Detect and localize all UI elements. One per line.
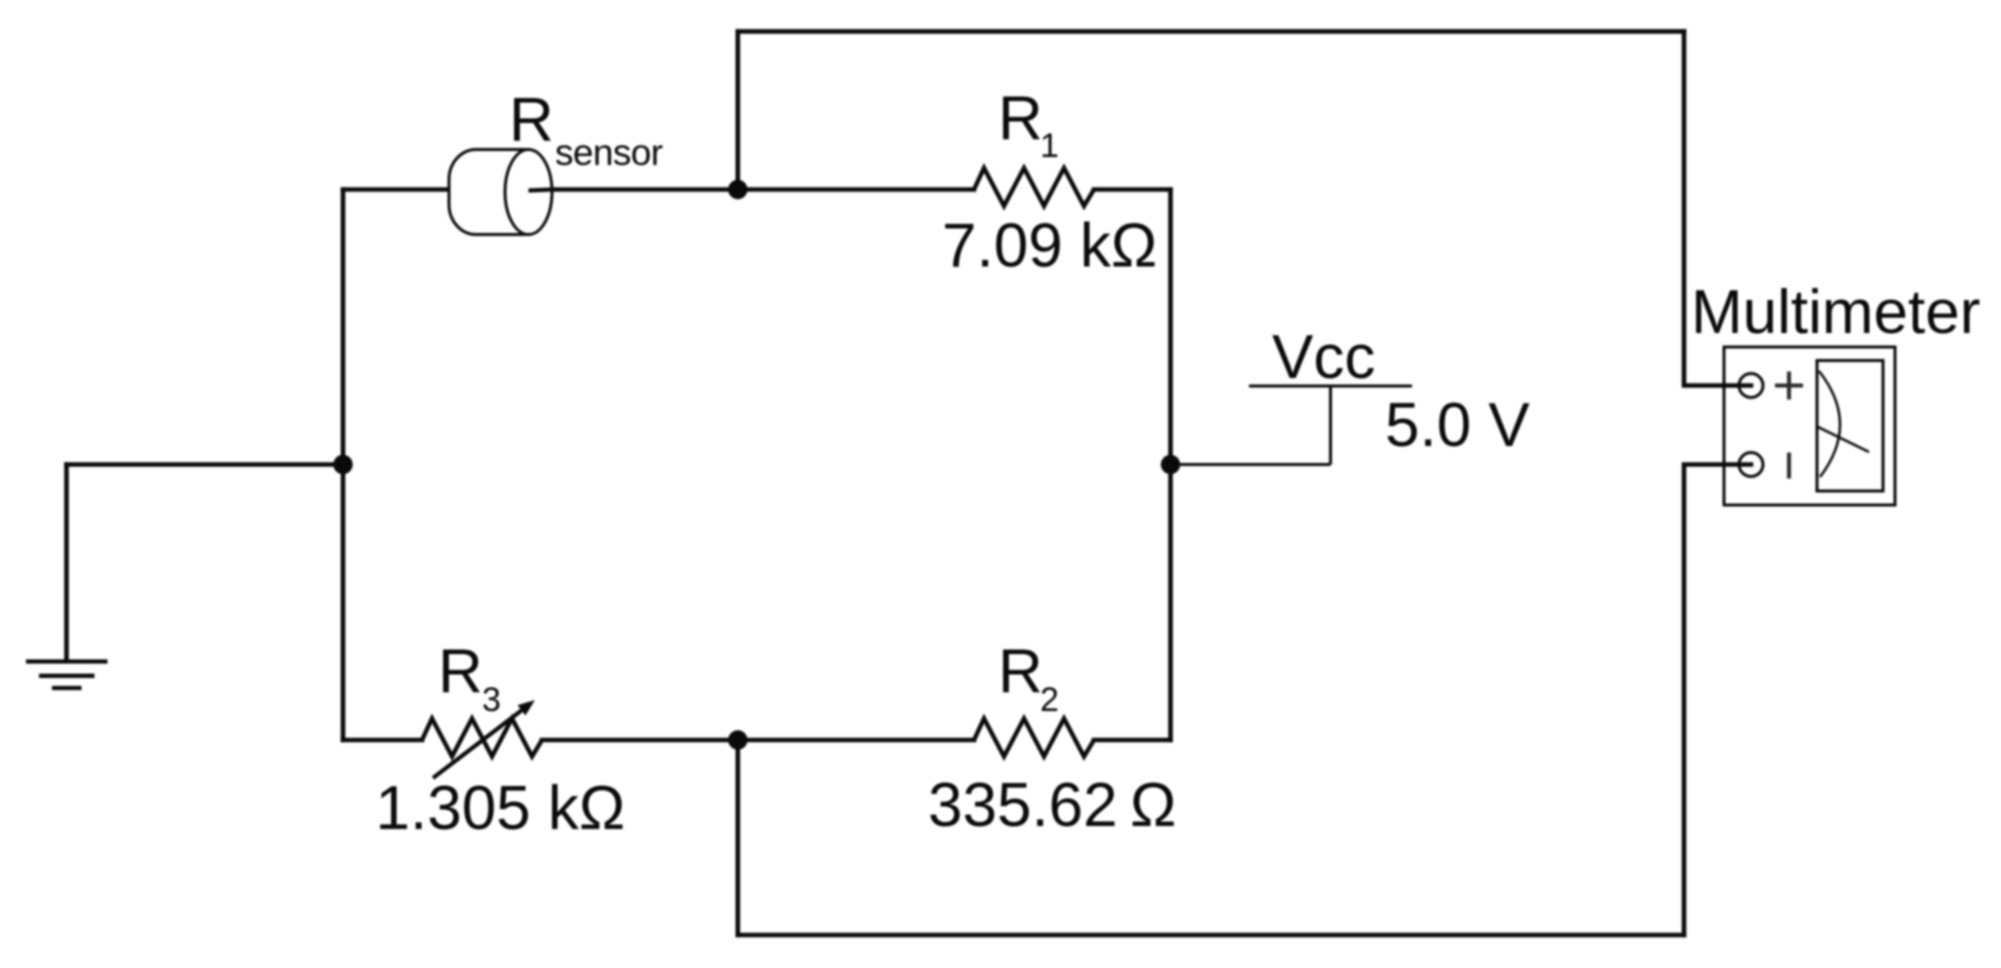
svg-text:Vcc: Vcc: [1272, 323, 1375, 392]
resistor R2: [974, 719, 1094, 757]
multimeter U1: [1724, 347, 1895, 505]
power Vcc: [1171, 386, 1412, 465]
label R3: [438, 638, 501, 720]
wire stub from sensor face: [529, 190, 553, 191]
wire ground vertical drop: [64, 465, 69, 661]
svg-text:2: 2: [1040, 681, 1059, 719]
ground: [26, 662, 108, 689]
wire bottom center vertical: [735, 740, 740, 935]
wire multimeter plus feed: [1684, 31, 1751, 385]
svg-text:R: R: [509, 86, 554, 155]
svg-text:R: R: [998, 85, 1043, 154]
label R2: [998, 638, 1059, 720]
svg-text:7.09 kΩ: 7.09 kΩ: [942, 212, 1157, 281]
label Rsensor: [509, 86, 663, 173]
minus terminal mark: [1787, 453, 1791, 479]
wire top row right (sensor to R1): [529, 187, 974, 192]
svg-text:R: R: [438, 638, 483, 707]
potentiometer R3: [422, 700, 542, 778]
wire bottom row left (to R3): [343, 738, 422, 743]
svg-text:R: R: [998, 638, 1043, 707]
wire top row left (ground branch to sensor): [343, 187, 470, 192]
svg-text:5.0 V: 5.0 V: [1385, 391, 1530, 460]
wire left branch vertical: [341, 190, 346, 741]
wire bottom row middle (R3 to R2): [542, 738, 974, 743]
svg-text:sensor: sensor: [555, 132, 663, 173]
wire multimeter minus feed: [1684, 465, 1751, 936]
resistor R1: [974, 168, 1094, 206]
svg-text:3: 3: [482, 681, 501, 719]
svg-text:335.62 Ω: 335.62 Ω: [928, 771, 1176, 840]
junction node right middle (Vcc tap): [1161, 455, 1180, 474]
junction node left middle (ground tap): [333, 455, 352, 474]
wire right branch vertical (R1 to R2): [1168, 190, 1173, 741]
svg-text:1.305 kΩ: 1.305 kΩ: [376, 774, 626, 843]
wire top rail: [738, 29, 1684, 34]
wire bottom row right of R2: [1094, 738, 1171, 743]
plus terminal mark: [1775, 372, 1803, 400]
label R1: [998, 85, 1059, 165]
sensor Rsensor (cylinder): [449, 150, 552, 235]
wire ground horizontal: [67, 462, 344, 467]
svg-text:1: 1: [1040, 127, 1059, 165]
junction node top (Rsensor/R1/top rail): [728, 180, 747, 199]
wire center top vertical (node between Rsensor and R1 up to top rail): [735, 31, 740, 189]
wire bottom rail: [738, 933, 1684, 938]
wire top row right of R1: [1094, 187, 1171, 192]
junction node bottom (R3/R2/bottom rail): [728, 730, 747, 749]
svg-text:Multimeter: Multimeter: [1691, 278, 1980, 347]
